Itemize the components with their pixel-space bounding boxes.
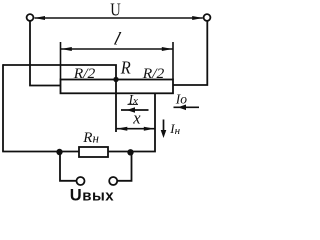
In current arrow shaft (163, 120, 165, 135)
Ix underline (128, 103, 139, 105)
extension line left (60, 42, 62, 80)
x dimension line (116, 128, 155, 130)
terminal circle top-left (27, 14, 34, 21)
In arrowhead (161, 130, 167, 138)
extension line right (172, 42, 174, 80)
U dim arrow right (192, 16, 203, 20)
wiper wire (3, 65, 116, 132)
svg-text:x: x (132, 109, 141, 128)
potentiometer body R (61, 80, 174, 94)
resistor Rн (79, 147, 108, 157)
junction dot bottom right (127, 149, 133, 155)
svg-text:U: U (110, 0, 121, 20)
Ix current arrow shaft (121, 109, 149, 111)
Ix arrowhead (127, 107, 135, 113)
output terminal circle right (109, 177, 117, 185)
svg-text:Uвых: Uвых (70, 186, 114, 204)
terminal circle top-right (204, 14, 211, 21)
stub to output terminal left (60, 152, 76, 181)
dimension line l (61, 48, 174, 50)
x dim arrow right (144, 127, 155, 131)
stub to output terminal right (117, 153, 131, 181)
wiper junction dot (113, 77, 118, 82)
Io current arrow shaft (174, 106, 200, 108)
wire wiper-node left down (2, 64, 4, 151)
bottom wire (2, 151, 79, 153)
output terminal circle left (77, 177, 85, 185)
bottom wire right part (108, 93, 155, 152)
wire right terminal down (173, 21, 208, 85)
svg-text:R/2: R/2 (142, 66, 165, 82)
x dim arrow left (117, 127, 128, 131)
svg-text:R/2: R/2 (73, 66, 96, 82)
svg-text:Iо: Iо (175, 91, 187, 106)
l dim arrow left (61, 47, 72, 51)
wire left terminal down (30, 21, 61, 86)
l dim arrow right (162, 47, 173, 51)
dimension line U (35, 17, 203, 19)
Io arrowhead (178, 105, 186, 111)
junction dot bottom left (56, 149, 62, 155)
U dim arrow left (34, 16, 45, 20)
svg-text:R: R (120, 57, 131, 77)
svg-text:Rн: Rн (82, 130, 99, 146)
